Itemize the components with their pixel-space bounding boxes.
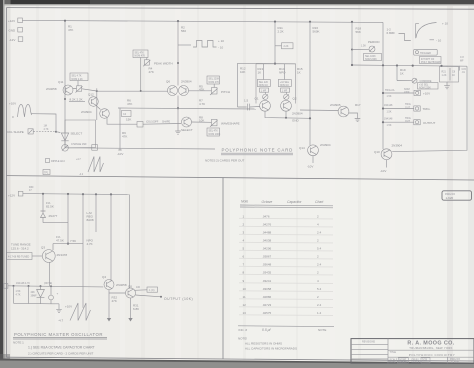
svg-text:+10V: +10V (65, 305, 72, 309)
terminal -12V (9, 37, 23, 42)
wire Q9 base from card (300, 109, 338, 112)
svg-text:1N4148 4.7K: 1N4148 4.7K (16, 282, 30, 285)
svg-text:SHAPE: SHAPE (162, 121, 171, 124)
trimpot R3 peak width (144, 60, 149, 65)
svg-text:CKL SHAPE: CKL SHAPE (7, 130, 24, 134)
resistor R13 (263, 64, 265, 80)
wire shaper row (143, 123, 181, 126)
svg-text:10: 10 (243, 287, 247, 291)
node junction (96, 90, 98, 92)
resistor ladder col 2 (28, 286, 30, 304)
scan streak texture (36, 5, 414, 360)
svg-text:CHANGE 1MF: CHANGE 1MF (71, 143, 87, 146)
wire lower supply bus (23, 194, 130, 195)
svg-text:1N4148: 1N4148 (384, 104, 393, 107)
wire right vertical from bus x352 (351, 22, 353, 65)
svg-text:OUT: OUT (405, 106, 411, 109)
select box B2 (207, 76, 220, 84)
svg-text:125.6 - 314.2: 125.6 - 314.2 (11, 247, 29, 251)
svg-text:TRIGGER: TRIGGER (420, 52, 431, 55)
svg-text:NOTES 2) CARDS PER OUT: NOTES 2) CARDS PER OUT (205, 159, 245, 163)
terminal left edge lower (3, 284, 8, 289)
svg-text:56K: 56K (356, 30, 361, 34)
trigger box (414, 49, 438, 55)
junction node C2 (28, 285, 30, 287)
svg-text:NOM 220K: NOM 220K (419, 87, 431, 90)
wire period branch (352, 48, 369, 50)
svg-text:NOM 1K: NOM 1K (259, 84, 269, 87)
svg-text:6.8K: 6.8K (133, 307, 139, 311)
svg-text:OUT: OUT (405, 120, 411, 123)
wire long lower horizontal (65, 148, 215, 149)
wire top supply bus (22, 20, 383, 22)
svg-text:39MF: 39MF (31, 294, 38, 297)
retune box (7, 253, 33, 260)
select box B3 (207, 128, 220, 136)
svg-text:TRIG-0A: TRIG-0A (385, 89, 395, 92)
svg-text:NOM 100K: NOM 100K (209, 133, 221, 136)
svg-text:8A08: 8A08 (87, 218, 94, 222)
svg-text:(C6) 100PF: (C6) 100PF (146, 121, 159, 124)
svg-text:220K: 220K (404, 91, 410, 94)
wire Q13 emitter down to shaper row (107, 117, 137, 124)
junction node A3 (274, 21, 276, 23)
trimpot R20 (77, 81, 79, 86)
svg-text:6.8MF: 6.8MF (387, 31, 396, 35)
svg-text:82.5K: 82.5K (46, 205, 54, 209)
wire Q9 loop and ground (349, 113, 361, 122)
svg-text:.1 (C): .1 (C) (149, 289, 155, 292)
wire note card top rail (238, 62, 296, 65)
transistor Q11 (63, 85, 73, 95)
svg-text:2N277: 2N277 (49, 214, 58, 218)
svg-text:4.7K: 4.7K (44, 128, 49, 131)
svg-text:NOTE: NOTE (318, 328, 326, 332)
resistor 6.8K (130, 298, 132, 313)
svg-text:1 MF: 1 MF (261, 89, 267, 92)
svg-text:POLYPHONIC NOTE CARD: POLYPHONIC NOTE CARD (222, 147, 294, 152)
svg-text:NPO: NPO (279, 71, 286, 75)
table rows (243, 215, 322, 316)
wire square-wave stub (178, 44, 191, 46)
junction node C1 (13, 285, 15, 287)
svg-text:Q10: Q10 (374, 150, 380, 154)
svg-text:2N3904: 2N3904 (181, 80, 192, 84)
svg-text:R. A. MOOG CO.: R. A. MOOG CO. (407, 341, 454, 347)
terminal GND (9, 27, 23, 32)
svg-text:Q3: Q3 (41, 246, 45, 250)
svg-text:Q4: Q4 (102, 275, 106, 279)
svg-text:1.) SEE R&A OCTAVE CAPACIT: 1.) SEE R&A OCTAVE CAPACITOR CHART (28, 346, 95, 350)
svg-text:-12V: -12V (9, 38, 15, 42)
wire Q12 emitter to Q13 (96, 106, 101, 110)
select box B6 (364, 54, 382, 61)
wire Q10 emitter (386, 160, 388, 168)
svg-text:TRUMANSBURG, NEW YORK: TRUMANSBURG, NEW YORK (409, 346, 452, 350)
svg-text:SELECT: SELECT (181, 128, 193, 132)
svg-text:8.2K 2.2K: 8.2K 2.2K (70, 98, 83, 102)
svg-text:2N3904: 2N3904 (81, 110, 92, 114)
junction node B5 (110, 193, 112, 195)
svg-text:- 10: - 10 (436, 38, 442, 42)
capacitor C1 (238, 104, 260, 111)
svg-text:(NOTE): (NOTE) (44, 282, 52, 285)
svg-text:OUTPUT (10K): OUTPUT (10K) (164, 297, 193, 301)
svg-text:GND: GND (9, 29, 17, 33)
svg-text:Q11: Q11 (58, 80, 64, 84)
junction node C3 (40, 285, 42, 287)
svg-text:1.5K: 1.5K (387, 95, 392, 98)
svg-text:.03435: .03435 (262, 271, 272, 275)
transistor Q2 card (281, 100, 292, 111)
svg-text:4.7K: 4.7K (87, 242, 93, 246)
svg-text:1-620: 1-620 (446, 196, 454, 200)
svg-text:47.5K: 47.5K (56, 239, 64, 243)
transistor Q8 shaper (182, 117, 192, 127)
resistor ladder col 1 (13, 286, 15, 304)
ripple adjust (46, 159, 50, 163)
svg-text:+4.7: +4.7 (76, 158, 81, 161)
svg-text:10K: 10K (199, 119, 204, 123)
svg-text:Q14: Q14 (299, 146, 305, 150)
resistor 82.5K 1% (42, 194, 44, 211)
svg-text:11: 11 (243, 295, 246, 299)
svg-text:NOM 47K: NOM 47K (209, 81, 220, 84)
svg-text:+10V: +10V (423, 92, 430, 96)
wire shaper bottom row (68, 147, 95, 149)
trimpot circle B (284, 94, 289, 99)
svg-text:-10V: -10V (117, 152, 123, 156)
coupling box (147, 287, 158, 292)
svg-text:2.) CIRCUITS PER CARD - 2: 2.) CIRCUITS PER CARD - 2 CARDS PER UNIT (28, 352, 94, 356)
test point box TP (137, 122, 143, 128)
junction node T1 (382, 64, 384, 66)
transistor Q10 (381, 149, 392, 160)
arrow ground Q5 (130, 313, 132, 318)
svg-text:2N4058: 2N4058 (116, 283, 127, 287)
svg-text:TITLE: TITLE (390, 351, 397, 354)
svg-text:WAVESHAPE: WAVESHAPE (221, 122, 240, 126)
svg-text:Chart: Chart (315, 200, 324, 204)
junction node T3 (412, 65, 414, 67)
transistor Q6 diff pair (168, 86, 178, 96)
svg-text:+12V: +12V (8, 194, 15, 198)
junction node T0 (351, 64, 353, 66)
wire trimpot down (140, 58, 142, 92)
select box SEL/NOM peak width (133, 50, 148, 58)
svg-text:-4.2: -4.2 (79, 173, 84, 176)
transistor Q5 (126, 288, 136, 298)
transistor Q12 (89, 97, 99, 107)
wire Q3 emitter down (49, 262, 51, 286)
wire Q11 collector (73, 89, 97, 92)
transistor Q4 (104, 280, 114, 290)
svg-text:.03867: .03867 (262, 255, 272, 259)
svg-text:.02723: .02723 (262, 303, 272, 307)
svg-text:NOM 2.2K: NOM 2.2K (72, 78, 84, 81)
svg-text:15K: 15K (126, 118, 131, 122)
resistor 47.5K 1% (67, 194, 69, 244)
svg-text:+: + (57, 292, 59, 296)
svg-text:PERIOD: PERIOD (368, 40, 380, 44)
svg-text:10K: 10K (240, 70, 245, 74)
output row trig (383, 108, 414, 110)
svg-text:Q1: Q1 (255, 97, 259, 101)
svg-text:5.4: 5.4 (317, 247, 322, 251)
scanner bottom band (0, 360, 474, 368)
junction node A1 (64, 20, 66, 22)
svg-text:-4.7: -4.7 (58, 319, 64, 323)
transistor Q13 (100, 109, 110, 119)
sawtooth annotation large (70, 303, 91, 321)
junction node peak (177, 62, 179, 64)
dwg no cell (447, 357, 449, 363)
wire base row (53, 244, 83, 250)
svg-text:NOM 1K: NOM 1K (280, 84, 290, 87)
capacitor C4 box (122, 111, 132, 117)
select box B4 upper-left (70, 73, 88, 81)
svg-text:1.4: 1.4 (317, 311, 322, 315)
svg-text:OUTPUT: OUTPUT (423, 121, 436, 125)
svg-text:INC. #: INC. # (239, 328, 248, 332)
svg-text:560K: 560K (313, 30, 320, 34)
junction node T2 (396, 64, 398, 66)
wire main right bus x383 (382, 22, 384, 149)
svg-text:R17: R17 (355, 103, 361, 107)
svg-text:0.5 μf: 0.5 μf (262, 328, 272, 332)
sawtooth annotation small (88, 157, 104, 173)
transistor Q1 card (260, 100, 271, 111)
junction node B1 (42, 193, 44, 195)
svg-text:4-17-66 RE-TUNED: 4-17-66 RE-TUNED (8, 255, 30, 258)
capacitor 1MF boxed A (260, 88, 269, 92)
svg-text:Q5: Q5 (128, 285, 132, 289)
wire zener to next (43, 222, 68, 224)
svg-text:1.5K: 1.5K (387, 111, 392, 114)
svg-text:GND: GND (292, 119, 300, 123)
step annotation (399, 23, 419, 40)
scanner left edge band (0, 0, 3, 362)
diode D2 (37, 286, 45, 304)
select box card A (257, 80, 270, 87)
ground below pair (175, 108, 181, 134)
wire vertical from bus at x275 (274, 22, 276, 64)
svg-text:4.7K: 4.7K (199, 102, 205, 106)
ground symbol (52, 304, 62, 313)
svg-text:.04276: .04276 (262, 223, 272, 227)
test point TP1 (43, 170, 50, 175)
wire Q5 collector to coupling box (134, 289, 147, 292)
wire output node (135, 295, 161, 297)
select box card B (278, 80, 291, 87)
svg-text:2.4: 2.4 (317, 231, 322, 235)
ground timing box (444, 82, 450, 89)
trimpot period (369, 46, 375, 52)
trimpot pitch (212, 88, 218, 95)
svg-text:Octave: Octave (262, 200, 273, 204)
junction node A2 (177, 20, 179, 22)
node junction (177, 107, 179, 109)
section divider line (7, 176, 474, 180)
trimpot waveshape (212, 119, 218, 126)
resistor R19 (396, 66, 398, 81)
svg-text:2.2K: 2.2K (284, 45, 289, 48)
svg-text:2N3904: 2N3904 (292, 112, 303, 116)
svg-text:.03648: .03648 (262, 263, 272, 267)
box small right (92, 145, 98, 151)
svg-text:100: 100 (136, 286, 141, 289)
junction node T4 (440, 65, 442, 67)
svg-text:TP1: TP1 (44, 171, 49, 174)
compare node (397, 80, 412, 82)
svg-text:+ 10: + 10 (218, 39, 224, 43)
svg-text:NOM 47K: NOM 47K (135, 55, 146, 58)
wire retune to base (32, 255, 42, 257)
wire shaper out (192, 121, 212, 123)
svg-text:TRIG.: TRIG. (423, 107, 431, 111)
wire mid horizontal bus (118, 108, 256, 109)
svg-text:.04038: .04038 (262, 239, 272, 243)
transistor Q9 comparator (338, 106, 349, 117)
wire shaper feed vertical (96, 88, 98, 120)
svg-text:47K: 47K (112, 299, 117, 303)
potentiometer dashed wiper (34, 130, 56, 132)
note card box (256, 64, 296, 104)
svg-text:1.5K: 1.5K (387, 124, 392, 127)
waveform humps (18, 105, 32, 118)
svg-text:7.5K: 7.5K (70, 239, 76, 243)
zener Z1 (41, 211, 46, 223)
svg-text:ALL RESISTORS IN OHMS: ALL RESISTORS IN OHMS (245, 342, 282, 346)
wire humps to select (32, 114, 57, 132)
trimpot circle (64, 141, 66, 145)
wire Q12 collector to diff pair (97, 90, 168, 92)
resistor R14 (284, 64, 286, 80)
svg-text:Capacitor: Capacitor (287, 200, 302, 204)
select box B10 (418, 83, 439, 89)
svg-text:1-620: 1-620 (451, 360, 459, 364)
capacitor 1MF boxed B (281, 88, 290, 92)
faint row rules (239, 218, 333, 315)
wire right card vertical bus (309, 22, 311, 146)
svg-text:1.2K: 1.2K (442, 74, 447, 77)
wire right frame feedback (392, 66, 467, 151)
wire right lower vertical (82, 194, 84, 308)
svg-text:2N3478: 2N3478 (57, 253, 68, 257)
svg-text:ALL CAPACITORS IN MICROFARA: ALL CAPACITORS IN MICROFARADS (245, 347, 297, 351)
wire pair emitters down (177, 96, 179, 109)
svg-text:12: 12 (243, 303, 247, 307)
drawing frame border (7, 8, 474, 10)
svg-text:2N3904: 2N3904 (392, 144, 403, 148)
left edge gradient (5, 0, 11, 362)
output row signal (383, 121, 414, 123)
wire trigger row (352, 65, 467, 66)
svg-text:2.4: 2.4 (317, 263, 322, 267)
svg-text:1K: 1K (297, 71, 301, 75)
wire reg vertical (95, 194, 97, 232)
svg-text:2N3904: 2N3904 (320, 143, 331, 147)
svg-text:Q2: Q2 (293, 97, 297, 101)
svg-text:.0476: .0476 (262, 215, 270, 219)
svg-text:2N4058: 2N4058 (46, 87, 57, 91)
svg-text:RIPPLE ADJ.: RIPPLE ADJ. (51, 160, 66, 163)
svg-text:.04206: .04206 (262, 247, 272, 251)
svg-text:- 10: - 10 (218, 46, 224, 50)
svg-text:.03241: .03241 (262, 279, 272, 283)
terminal +12V (8, 18, 22, 23)
svg-text:+ 10: + 10 (442, 22, 448, 26)
wire Q14 emitter (312, 156, 314, 163)
diode D1 funnel (61, 133, 68, 141)
svg-text:.02575: .02575 (262, 311, 272, 315)
junction node B4 (95, 193, 97, 195)
scanner top edge band (0, 0, 474, 4)
svg-text:1 MF: 1 MF (282, 89, 288, 92)
svg-text:2.2K: 2.2K (278, 30, 284, 34)
timing box R/C (440, 67, 459, 83)
wire pair out right (189, 90, 212, 92)
svg-text:1K: 1K (400, 72, 404, 76)
arrow ground Q4 (108, 313, 110, 318)
wire Q4 emitter down (108, 290, 110, 313)
wire far vertical (110, 194, 112, 281)
svg-text:POLYPHONIC CIRCUITRY: POLYPHONIC CIRCUITRY (409, 353, 456, 357)
wire left cap branch (237, 63, 239, 107)
note box do-not-adjust (420, 57, 442, 64)
svg-text:-10V: -10V (380, 169, 386, 173)
junction node B2 (67, 193, 69, 195)
wire Q4 to Q5 base (109, 292, 125, 294)
svg-text:.03058: .03058 (262, 287, 272, 291)
svg-text:1K: 1K (258, 71, 262, 75)
trimpot circle A (263, 94, 268, 99)
svg-text:1N4148: 1N4148 (384, 118, 393, 121)
svg-text:SELECT: SELECT (71, 132, 83, 136)
svg-text:47K: 47K (199, 88, 204, 92)
totals rule (238, 325, 334, 328)
svg-text:1.5K: 1.5K (361, 45, 366, 48)
svg-text:47K: 47K (68, 28, 73, 32)
junction node A4 (309, 21, 311, 23)
svg-text:REVISIONS: REVISIONS (362, 340, 375, 343)
revisions column (387, 339, 389, 364)
capacitor box 2.2K (275, 45, 282, 47)
svg-text:+10V: +10V (9, 102, 16, 106)
table header (241, 200, 324, 205)
svg-text:47K: 47K (127, 102, 132, 106)
svg-text:-10V: -10V (307, 165, 313, 169)
wire card emitters (265, 111, 310, 118)
svg-text:Note: Note (241, 200, 248, 204)
svg-text:Q12: Q12 (88, 93, 94, 97)
svg-text:PITCH: PITCH (221, 90, 230, 94)
svg-text:13: 13 (243, 311, 247, 315)
svg-text:1-26-66: 1-26-66 (398, 361, 407, 364)
svg-text:2N3905: 2N3905 (330, 103, 341, 107)
table header rule (240, 205, 333, 208)
svg-text:PEAK WIDTH: PEAK WIDTH (154, 62, 173, 66)
section divider vertical (222, 177, 224, 359)
svg-text:POLYPHONIC MASTER OSCILL: POLYPHONIC MASTER OSCILLATOR (14, 332, 103, 337)
svg-text:4.7K: 4.7K (16, 293, 21, 296)
svg-text:47K: 47K (149, 70, 154, 74)
transistor Q14 (308, 145, 319, 156)
junction node A5 (351, 21, 353, 23)
wire osc bus (8, 286, 103, 287)
svg-text:MF: MF (460, 59, 464, 62)
svg-text:CK'D BY: CK'D BY (412, 361, 422, 364)
